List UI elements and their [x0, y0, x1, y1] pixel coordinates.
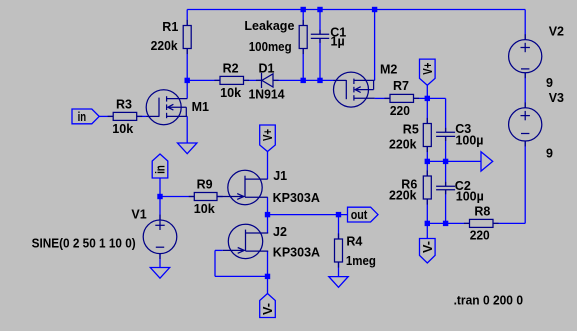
wire C3 bottom lead [445, 136, 447, 161]
svg-text:out: out [351, 208, 368, 222]
junction J2 gate-source node [265, 274, 270, 279]
svg-text:100µ: 100µ [456, 189, 484, 203]
label R2 [223, 62, 239, 76]
svg-text:SINE(0 2 50 1 10 0): SINE(0 2 50 1 10 0) [32, 236, 136, 251]
flag in (left) [72, 109, 99, 124]
wire mid node to ground [427, 160, 481, 162]
svg-text:10k: 10k [194, 202, 215, 216]
svg-text:1meg: 1meg [346, 254, 376, 268]
label M1 [192, 100, 209, 114]
resistor R3 [108, 112, 143, 120]
junction out/R4 node [336, 212, 341, 217]
label R8 [474, 205, 490, 219]
junction Leakage top [301, 7, 306, 12]
wire D1 to M2 gate [273, 79, 334, 81]
label R6 [401, 177, 417, 191]
transistor J2 [223, 224, 268, 258]
flag V+ (at J1) [260, 125, 276, 152]
junction mid node left [425, 159, 430, 164]
svg-text:R7: R7 [393, 79, 409, 93]
svg-text:V+: V+ [421, 63, 435, 75]
svg-text:10k: 10k [220, 86, 241, 100]
wire M2 source to R7 [375, 97, 390, 99]
ground mid (rotated) [481, 152, 493, 171]
label M2 [380, 63, 397, 77]
label R3 [116, 98, 132, 112]
svg-text:KP303A: KP303A [273, 245, 320, 259]
svg-text:in: in [78, 110, 87, 124]
wire V+ flag drop [426, 85, 428, 98]
wire M1 drain riser [186, 80, 188, 98]
capacitor C3 [436, 128, 455, 141]
svg-text:10k: 10k [112, 122, 133, 136]
resistor R2 [214, 76, 249, 84]
resistor R7 [384, 94, 419, 102]
svg-text:220k: 220k [389, 189, 417, 203]
wire J2 gate loop bottom [215, 275, 268, 277]
wire R5 to mid node [426, 147, 428, 162]
capacitor C1 [311, 30, 329, 43]
wire R1 bottom lead [186, 49, 188, 81]
svg-text:V1: V1 [131, 208, 146, 222]
wire node to R5 [426, 98, 428, 123]
wire C2 top lead [445, 161, 447, 186]
svg-text:KP303A: KP303A [273, 191, 320, 205]
wire V- flag drop left [267, 276, 269, 293]
svg-text:220: 220 [390, 104, 410, 118]
wire M1 source to ground [186, 116, 188, 143]
ground below V1 [150, 268, 169, 279]
wire M2 top riser [374, 10, 376, 81]
capacitor C2 [436, 182, 455, 195]
value R5 220k [389, 137, 417, 151]
value V3 9 [546, 146, 553, 160]
transistor M1 [146, 90, 187, 125]
svg-text:R5: R5 [403, 122, 419, 136]
label R4 [346, 235, 362, 249]
flag V+ (top) [420, 59, 436, 85]
value R3 10k [112, 122, 133, 136]
value C3 100u [456, 133, 484, 147]
svg-text:R9: R9 [197, 177, 213, 191]
wire V1 to ground [159, 254, 161, 268]
junction V1/R9 node [157, 194, 162, 199]
flag in (up, at V1) [152, 154, 168, 178]
wire R1/R2/M1 node to R2 [187, 79, 220, 81]
wire C2 bottom lead [445, 190, 447, 224]
junction V+ / R7 node [425, 96, 430, 101]
wire V2 to V3 [524, 73, 526, 108]
wire R8 to V3 riser [493, 222, 525, 224]
wire node to V1 [159, 197, 161, 221]
wire R4 to ground [338, 262, 340, 277]
svg-text:J1: J1 [273, 169, 287, 183]
ground below M1 [178, 143, 197, 154]
wire in flag to node [159, 178, 161, 197]
value R2 10k [220, 86, 241, 100]
wire V3 bottom riser [524, 141, 526, 223]
transistor M2 [333, 72, 374, 107]
wire R9 to J1 gate [217, 196, 223, 198]
wire mid node to R6 [426, 161, 428, 176]
junction Leakage bottom [301, 78, 306, 83]
svg-text:V+: V+ [261, 129, 275, 141]
svg-text:V3: V3 [549, 91, 564, 105]
value V2 9 [546, 76, 553, 90]
value R6 220k [389, 189, 417, 203]
wire R7 to C3 branch [414, 97, 446, 99]
resistor R6 [423, 170, 431, 204]
svg-text:100µ: 100µ [456, 133, 484, 147]
svg-text:Leakage: Leakage [244, 19, 294, 33]
voltage source V3 [509, 102, 542, 146]
wire out node to R4 [338, 215, 340, 239]
svg-text:V-: V- [421, 241, 435, 253]
voltage source V1 [143, 215, 177, 259]
wire V+ flag to J1 drain [267, 152, 269, 180]
flag V- (right) [420, 239, 436, 264]
value Leakage 100meg [249, 40, 292, 54]
spice directive .tran [454, 292, 523, 307]
label C2 [455, 179, 471, 193]
wire top supply net [187, 9, 525, 11]
value R4 1meg [346, 254, 376, 268]
wire Leakage bottom lead [302, 49, 304, 81]
value J2 KP303A [273, 245, 320, 259]
resistor R5 [423, 118, 431, 152]
junction J1/J2 out node [265, 212, 270, 217]
label R1 [162, 20, 178, 34]
wire J2 gate stub [215, 249, 223, 251]
label D1 [259, 62, 275, 76]
wire R6 to bottom node [426, 199, 428, 223]
wire J2 drain riser [267, 215, 269, 233]
resistor Leakage [299, 20, 307, 54]
wire V2 top riser [524, 10, 526, 40]
wire node to R9 [160, 196, 194, 198]
flag out [348, 207, 379, 222]
value C1 1u [331, 34, 345, 48]
junction C1 top [317, 7, 322, 12]
wire R2 to D1 [244, 79, 262, 81]
junction M2 riser top [372, 7, 377, 12]
label V3 [549, 91, 564, 105]
wire J2 gate loop vertical [214, 250, 216, 276]
svg-text:9: 9 [546, 146, 553, 160]
diode D1 [256, 73, 279, 88]
wire C3 top lead [445, 98, 447, 132]
wire Leakage top lead [302, 10, 304, 26]
wire J2 source drop [267, 251, 269, 276]
junction C1 bottom [317, 78, 322, 83]
value V1 SINE [32, 236, 136, 251]
resistor R9 [189, 193, 223, 201]
transistor J1 [222, 170, 267, 204]
svg-text:.tran 0 200 0: .tran 0 200 0 [454, 292, 523, 307]
wire V- flag drop right [426, 223, 428, 238]
svg-text:M1: M1 [192, 100, 209, 114]
svg-text:R2: R2 [223, 62, 239, 76]
svg-text:V-: V- [261, 303, 275, 315]
label R9 [197, 177, 213, 191]
svg-text:in: in [154, 165, 168, 174]
svg-text:R1: R1 [162, 20, 178, 34]
junction R1/R2/M1 node [185, 78, 190, 83]
label V2 [549, 24, 564, 38]
value R8 220 [470, 228, 490, 242]
svg-text:D1: D1 [259, 62, 275, 76]
svg-text:V2: V2 [549, 24, 564, 38]
label J1 [273, 169, 287, 183]
voltage source V2 [509, 34, 542, 78]
wire R3 to M1 gate [137, 115, 147, 117]
junction mid node C [443, 159, 448, 164]
svg-text:220k: 220k [389, 137, 417, 151]
wire C1 top lead [319, 10, 321, 35]
label V1 [131, 208, 146, 222]
junction bottom node C [443, 221, 448, 226]
value R9 10k [194, 202, 215, 216]
wire J1 source drop [267, 197, 269, 214]
resistor R1 [183, 20, 191, 54]
svg-text:1N914: 1N914 [249, 88, 285, 102]
wire out net [268, 214, 348, 216]
svg-text:220k: 220k [151, 39, 178, 53]
value J1 KP303A [273, 191, 320, 205]
value C2 100u [456, 189, 484, 203]
label C1 [330, 26, 346, 40]
svg-text:M2: M2 [380, 63, 397, 77]
value D1 1N914 [249, 88, 285, 102]
ground below R4 [329, 277, 348, 288]
wire C1 bottom lead [319, 38, 321, 80]
svg-text:R3: R3 [116, 98, 132, 112]
svg-text:1µ: 1µ [331, 34, 345, 48]
junction bottom node left [425, 221, 430, 226]
svg-text:R8: R8 [474, 205, 490, 219]
wire bottom node to R8 [427, 222, 469, 224]
label Leakage [244, 19, 294, 33]
label R7 [393, 79, 409, 93]
flag V- (at J2) [260, 294, 276, 318]
resistor R4 [335, 233, 343, 267]
wire in flag to R3 [99, 115, 114, 117]
svg-text:100meg: 100meg [249, 40, 292, 54]
value R7 220 [390, 104, 410, 118]
label J2 [273, 225, 287, 239]
label R5 [403, 122, 419, 136]
svg-text:R4: R4 [346, 235, 362, 249]
svg-text:220: 220 [470, 228, 490, 242]
resistor R8 [464, 219, 499, 227]
label C3 [455, 122, 471, 136]
svg-text:J2: J2 [273, 225, 287, 239]
svg-text:9: 9 [546, 76, 553, 90]
wire R1 top lead [186, 10, 188, 26]
value R1 220k [151, 39, 178, 53]
